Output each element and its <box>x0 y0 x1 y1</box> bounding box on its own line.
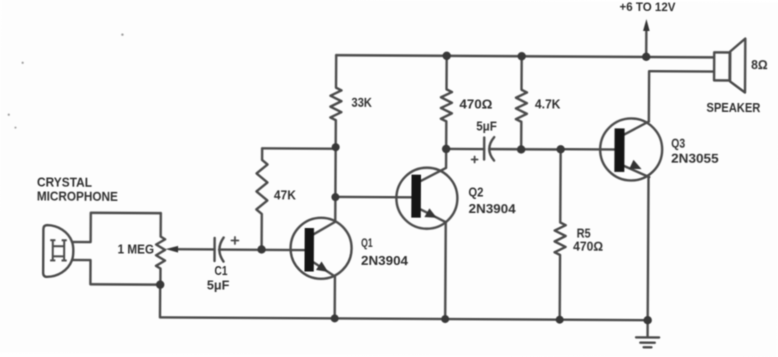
svg-text:33K: 33K <box>351 95 372 110</box>
svg-text:Q2: Q2 <box>468 184 483 199</box>
svg-text:2N3055: 2N3055 <box>671 150 719 165</box>
svg-text:5μF: 5μF <box>476 119 497 134</box>
svg-text:8Ω: 8Ω <box>751 57 768 72</box>
svg-text:Q1: Q1 <box>361 238 373 250</box>
svg-text:C1: C1 <box>214 263 227 278</box>
svg-text:MICROPHONE: MICROPHONE <box>37 188 118 203</box>
svg-text:Q3: Q3 <box>671 135 685 150</box>
svg-text:47K: 47K <box>274 187 297 202</box>
svg-text:5μF: 5μF <box>207 277 230 292</box>
svg-text:4.7K: 4.7K <box>535 96 561 111</box>
svg-text:470Ω: 470Ω <box>573 239 603 254</box>
svg-text:+6 TO 12V: +6 TO 12V <box>619 0 675 14</box>
svg-text:470Ω: 470Ω <box>459 96 492 111</box>
svg-text:2N3904: 2N3904 <box>361 253 409 268</box>
svg-text:SPEAKER: SPEAKER <box>706 100 761 115</box>
svg-text:CRYSTAL: CRYSTAL <box>37 174 92 189</box>
svg-text:2N3904: 2N3904 <box>469 201 517 216</box>
svg-text:1 MEG: 1 MEG <box>118 241 155 256</box>
